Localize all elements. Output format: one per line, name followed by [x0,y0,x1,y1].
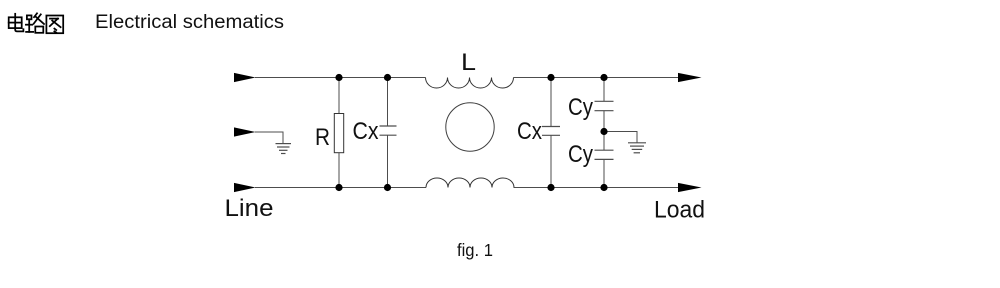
capacitor Cy top [595,101,614,110]
title Chinese 电路图 (drawn strokes) [9,13,64,33]
svg-text:Electrical schematics: Electrical schematics [95,12,284,33]
core circle [446,103,494,151]
svg-text:Cx: Cx [353,118,379,145]
inductor L top winding [426,78,514,89]
wire Cy middle [603,111,605,151]
wire top line right segment [514,77,681,79]
wire Cx2 branch bottom [550,135,552,187]
junction node Cy midpoint [600,128,607,135]
arrow terminal line top [234,73,256,82]
svg-text:Cx: Cx [517,118,542,145]
svg-text:Line: Line [225,195,274,222]
wire middle ground lead [255,132,283,144]
wire bottom line right segment [514,187,681,189]
wire Cx1 branch top [387,78,389,127]
junction node top Cx2 [547,74,554,81]
junction node bottom Cx1 [384,184,391,191]
wire Cy ground lead [604,132,637,143]
wire R branch top [338,78,340,114]
inductor L bottom winding [426,178,514,187]
junction node top R [335,74,342,81]
svg-text:Cy: Cy [568,141,594,168]
junction node top Cx1 [384,74,391,81]
resistor R [334,114,343,153]
wire Cx1 branch bottom [387,135,389,187]
junction node top Cy [600,74,607,81]
wire R branch bottom [338,153,340,188]
wire top line left segment [255,77,426,79]
junction node bottom Cx2 [547,184,554,191]
arrow terminal line middle [234,127,256,136]
wire Cx2 branch top [550,78,552,127]
arrow terminal load bottom [678,183,702,192]
ground right [628,143,646,153]
wire Cy branch top [603,78,605,102]
wire bottom line left segment [255,187,426,189]
capacitor Cx1 [380,126,397,135]
capacitor Cx2 [542,127,560,136]
svg-text:fig. 1: fig. 1 [457,240,493,260]
svg-text:L: L [461,49,476,76]
svg-text:Cy: Cy [568,94,594,121]
arrow terminal line bottom [234,183,256,192]
wire Cy branch bottom [603,159,605,187]
arrow terminal load top [678,73,702,82]
svg-text:Load: Load [654,197,705,224]
capacitor Cy bottom [595,150,614,159]
junction node bottom R [335,184,342,191]
junction node bottom Cy [600,184,607,191]
ground left [276,144,292,154]
svg-text:R: R [315,124,330,151]
